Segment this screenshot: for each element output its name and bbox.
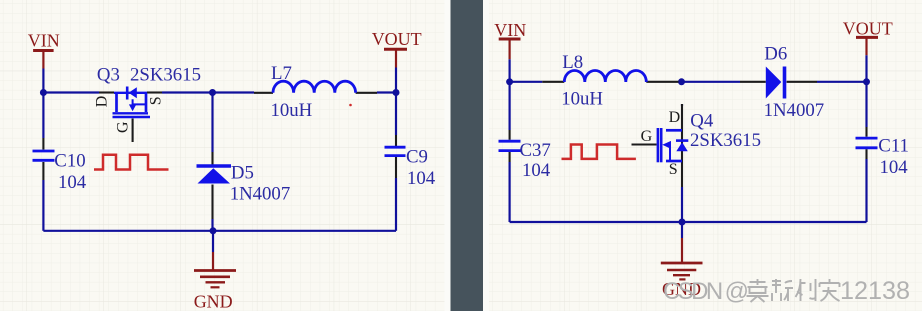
svg-text:1N4007: 1N4007 (230, 184, 291, 205)
svg-text:D: D (669, 109, 681, 126)
svg-text:C10: C10 (54, 151, 85, 172)
svg-text:VOUT: VOUT (372, 29, 422, 49)
svg-text:GND: GND (194, 291, 233, 311)
svg-text:D: D (93, 96, 110, 108)
svg-text:L8: L8 (562, 52, 583, 73)
svg-text:104: 104 (522, 160, 551, 181)
svg-text:VIN: VIN (28, 30, 60, 50)
svg-text:L7: L7 (271, 63, 292, 84)
svg-text:S: S (669, 161, 678, 178)
svg-text:VIN: VIN (494, 20, 526, 40)
svg-text:104: 104 (407, 168, 436, 189)
svg-text:D5: D5 (231, 163, 254, 184)
svg-text:G: G (114, 121, 131, 133)
svg-text:12138: 12138 (840, 277, 910, 305)
svg-text:2SK3615: 2SK3615 (130, 65, 201, 86)
svg-text:104: 104 (880, 157, 909, 178)
svg-text:Q4: Q4 (690, 110, 714, 131)
svg-text:C9: C9 (406, 147, 428, 168)
svg-text:D6: D6 (764, 43, 787, 64)
svg-text:S: S (147, 96, 164, 105)
svg-text:VOUT: VOUT (843, 18, 893, 38)
svg-text:C37: C37 (520, 140, 551, 161)
svg-text:104: 104 (58, 172, 87, 193)
svg-text:10uH: 10uH (561, 89, 603, 110)
svg-text:10uH: 10uH (271, 100, 313, 121)
svg-text:2SK3615: 2SK3615 (690, 130, 761, 151)
svg-text:1N4007: 1N4007 (764, 100, 825, 121)
svg-text:G: G (641, 128, 653, 145)
svg-text:Q3: Q3 (97, 65, 120, 86)
svg-text:CSDN @: CSDN @ (663, 278, 748, 305)
svg-text:C11: C11 (878, 136, 909, 157)
